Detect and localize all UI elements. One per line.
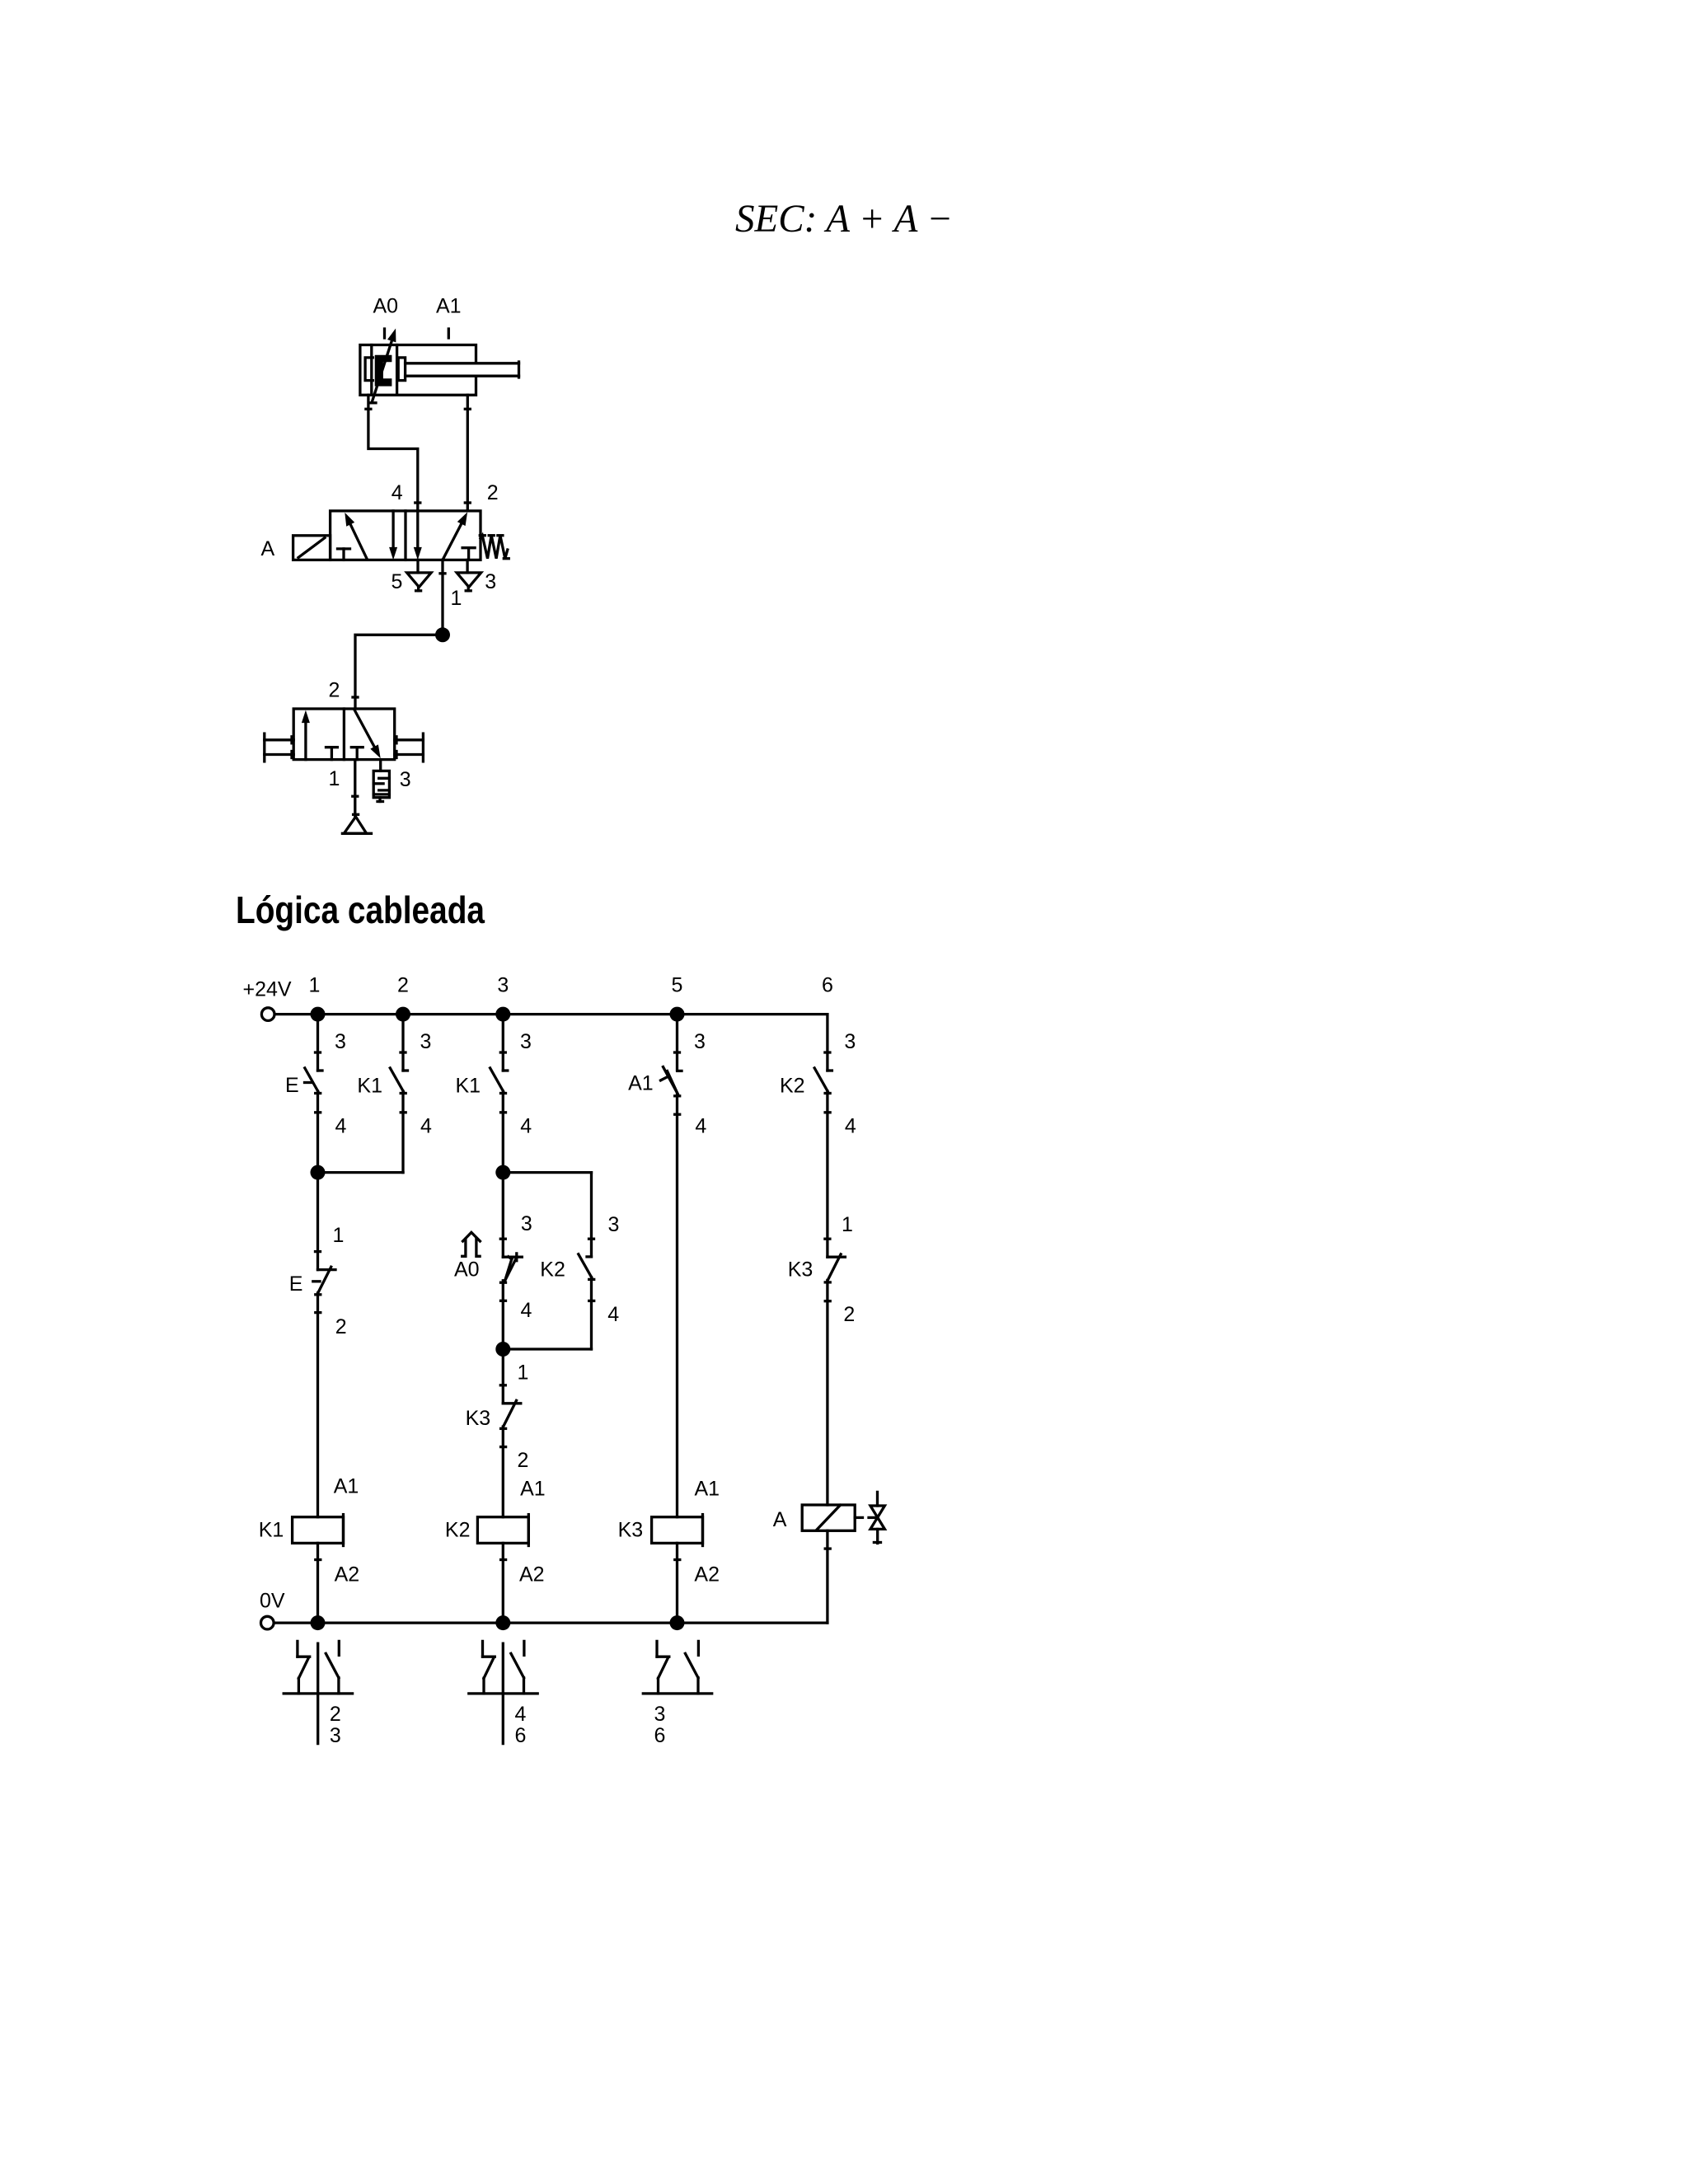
junction 0V col5: [670, 1615, 685, 1630]
svg-text:K3: K3: [788, 1258, 814, 1282]
svg-text:A0: A0: [373, 295, 399, 318]
svg-text:3: 3: [654, 1703, 666, 1726]
sensor mark A1: [448, 329, 450, 338]
svg-text:2: 2: [518, 1449, 529, 1472]
0V rail: [274, 1621, 828, 1624]
svg-text:E: E: [289, 1272, 303, 1296]
wire cylinder right port to valve port 2: [465, 395, 470, 511]
svg-text:4: 4: [521, 1299, 532, 1322]
wire col5 to contact A1: [675, 1015, 680, 1071]
junction rail col5: [670, 1007, 685, 1022]
pressure source: [342, 814, 371, 833]
relay coil K2: [477, 1515, 528, 1546]
3/2 left position internals: [302, 710, 338, 760]
cylinder piston rod: [406, 362, 519, 377]
junction rail col2: [396, 1007, 410, 1022]
3/2 right position internals: [351, 710, 380, 760]
svg-text:4: 4: [420, 1115, 432, 1138]
exhaust port 3: [457, 560, 481, 590]
svg-text:4: 4: [335, 1115, 347, 1138]
svg-text:A1: A1: [520, 1477, 546, 1500]
relay contact K2 NO (col6): [814, 1068, 832, 1091]
svg-text:K2: K2: [445, 1518, 471, 1541]
wire cylinder left port to valve port 4: [366, 395, 420, 511]
junction 0V col1: [311, 1615, 326, 1630]
relay coil K3: [652, 1515, 703, 1546]
svg-text:K2: K2: [540, 1258, 565, 1282]
rail corner to col6 wire: [825, 1015, 830, 1071]
junction dot col3 row2: [495, 1165, 510, 1180]
pushbutton E NC contact: [313, 1267, 335, 1293]
branch wire to contact K2: [589, 1173, 594, 1257]
svg-text:1: 1: [451, 587, 462, 610]
valve 3/2 body: [293, 709, 395, 760]
svg-text:3: 3: [521, 1212, 532, 1235]
junction dot col1 row2: [311, 1165, 326, 1180]
svg-text:3: 3: [485, 570, 496, 593]
svg-text:2: 2: [397, 974, 409, 997]
cylinder A body: [360, 345, 476, 396]
pushbutton E NO contact: [305, 1068, 323, 1091]
wire col3 to coil K2: [501, 1427, 506, 1517]
wire col2 to contact K1: [401, 1015, 406, 1071]
wire col3 to contact K3 NC: [500, 1349, 505, 1404]
svg-text:SEC: A + A −: SEC: A + A −: [735, 197, 953, 241]
wire branch return to col3: [503, 1347, 591, 1350]
wire coil K2 to 0V: [501, 1543, 506, 1623]
valve left position internals: [338, 511, 398, 560]
svg-text:2: 2: [487, 481, 499, 504]
svg-text:6: 6: [822, 974, 833, 997]
svg-text:Lógica cableada: Lógica cableada: [236, 888, 485, 931]
svg-text:2: 2: [843, 1303, 855, 1326]
svg-text:K2: K2: [780, 1074, 805, 1097]
svg-text:A2: A2: [335, 1563, 360, 1586]
sensor mark A0: [383, 329, 386, 338]
wire col1 contact to junction: [316, 1091, 321, 1173]
limit switch contact A1 NO: [661, 1067, 682, 1094]
valve right position internals: [414, 511, 475, 560]
svg-text:A: A: [261, 537, 275, 560]
svg-text:A1: A1: [695, 1477, 720, 1500]
svg-text:3: 3: [608, 1213, 620, 1236]
svg-text:3: 3: [520, 1030, 532, 1053]
wire coil K1 to 0V: [316, 1543, 321, 1623]
svg-text:4: 4: [392, 481, 403, 504]
svg-text:K1: K1: [259, 1518, 284, 1541]
relay contact K1 NO (col2): [390, 1068, 407, 1091]
svg-text:4: 4: [695, 1115, 706, 1138]
svg-text:K1: K1: [357, 1074, 382, 1097]
svg-text:0V: 0V: [260, 1590, 285, 1613]
svg-text:4: 4: [607, 1303, 619, 1326]
junction rail col1: [311, 1007, 326, 1022]
svg-text:A1: A1: [628, 1072, 654, 1095]
silencer on port 3: [373, 760, 389, 802]
contact mirror K2: [469, 1641, 537, 1743]
wire col1 to coil K1: [316, 1293, 321, 1517]
solenoid valve output A: [802, 1505, 862, 1530]
svg-text:+24V: +24V: [243, 978, 292, 1001]
0V terminal: [261, 1616, 274, 1629]
wire col3 contact to junction: [501, 1091, 506, 1173]
junction 0V col3: [495, 1615, 510, 1630]
svg-text:A2: A2: [694, 1563, 720, 1586]
junction rail col3: [495, 1007, 510, 1022]
wire col3 to contact K1: [500, 1015, 505, 1071]
svg-text:K3: K3: [618, 1518, 644, 1541]
wire col6 to contact K3: [825, 1091, 830, 1257]
svg-text:K1: K1: [456, 1074, 481, 1097]
return spring: [480, 536, 509, 559]
svg-text:3: 3: [844, 1030, 856, 1053]
svg-text:1: 1: [333, 1224, 345, 1247]
svg-text:3: 3: [400, 768, 411, 791]
wire col1 to contact E: [316, 1015, 321, 1071]
wire col2 contact to junction row: [401, 1091, 406, 1173]
svg-text:4: 4: [520, 1115, 532, 1138]
relay contact K3 NC (col6): [828, 1254, 846, 1281]
svg-text:K3: K3: [466, 1407, 491, 1430]
svg-text:2: 2: [330, 1703, 341, 1726]
relay contact K3 NC (col3): [503, 1400, 521, 1427]
junction node: [435, 627, 450, 642]
wire valve port1 to 3/2 valve port 2: [353, 635, 443, 709]
svg-text:5: 5: [392, 570, 403, 593]
3/2 manual actuator right: [395, 733, 424, 762]
wire col2 to col1 junction: [318, 1171, 404, 1174]
wire col3 junction to contact A0: [500, 1173, 505, 1258]
wire col5 long run to coil K3: [675, 1094, 680, 1517]
svg-text:A0: A0: [454, 1258, 480, 1282]
svg-text:A: A: [773, 1508, 787, 1531]
junction dot col3 self hold: [495, 1342, 510, 1357]
svg-text:4: 4: [845, 1115, 856, 1138]
svg-text:2: 2: [329, 679, 340, 702]
port 1 stub: [440, 560, 445, 635]
svg-text:1: 1: [842, 1213, 853, 1236]
relay contact K1 NO (col3): [490, 1068, 508, 1091]
solenoid pilot A: [293, 536, 331, 560]
svg-text:A2: A2: [519, 1563, 545, 1586]
wire coil K3 to 0V: [675, 1543, 680, 1623]
wire col1 junction to NC contact E: [316, 1173, 321, 1270]
3/2 manual actuator left: [265, 733, 293, 762]
wire A0 contact to junction dot: [501, 1281, 506, 1349]
svg-text:3: 3: [420, 1030, 432, 1053]
wire 3/2 port1 to pressure source: [353, 760, 358, 817]
svg-text:3: 3: [335, 1030, 346, 1053]
svg-text:1: 1: [329, 767, 340, 790]
relay contact K2 NO (branch): [579, 1254, 592, 1277]
svg-text:3: 3: [330, 1724, 341, 1747]
piston position arrow: [371, 329, 396, 403]
wire col6 to solenoid A: [825, 1280, 830, 1505]
+24V rail: [275, 1013, 828, 1015]
branch wire down to junction: [589, 1277, 594, 1349]
exhaust port 5: [407, 560, 431, 590]
svg-text:4: 4: [515, 1703, 527, 1726]
valve 5/2 body: [331, 511, 481, 560]
contact mirror K1: [284, 1641, 352, 1743]
svg-text:2: 2: [335, 1315, 347, 1338]
svg-text:E: E: [285, 1074, 299, 1097]
svg-text:6: 6: [654, 1724, 666, 1747]
svg-text:1: 1: [518, 1361, 529, 1385]
valve indicator symbol: [869, 1492, 884, 1543]
limit switch contact A0 NO actuated: [503, 1254, 522, 1281]
actuated indicator arrow for A0: [462, 1232, 481, 1256]
relay coil K1: [293, 1515, 344, 1546]
wire solenoid A to 0V corner: [825, 1530, 830, 1623]
svg-text:1: 1: [309, 974, 321, 997]
svg-text:3: 3: [694, 1030, 706, 1053]
svg-text:3: 3: [497, 974, 509, 997]
svg-text:A1: A1: [436, 295, 462, 318]
+24V terminal: [261, 1008, 274, 1021]
svg-text:A1: A1: [334, 1474, 359, 1497]
svg-text:6: 6: [515, 1724, 527, 1747]
contact mirror K3: [643, 1641, 711, 1693]
svg-text:5: 5: [672, 974, 683, 997]
wire col3 junction to branch: [503, 1171, 591, 1174]
